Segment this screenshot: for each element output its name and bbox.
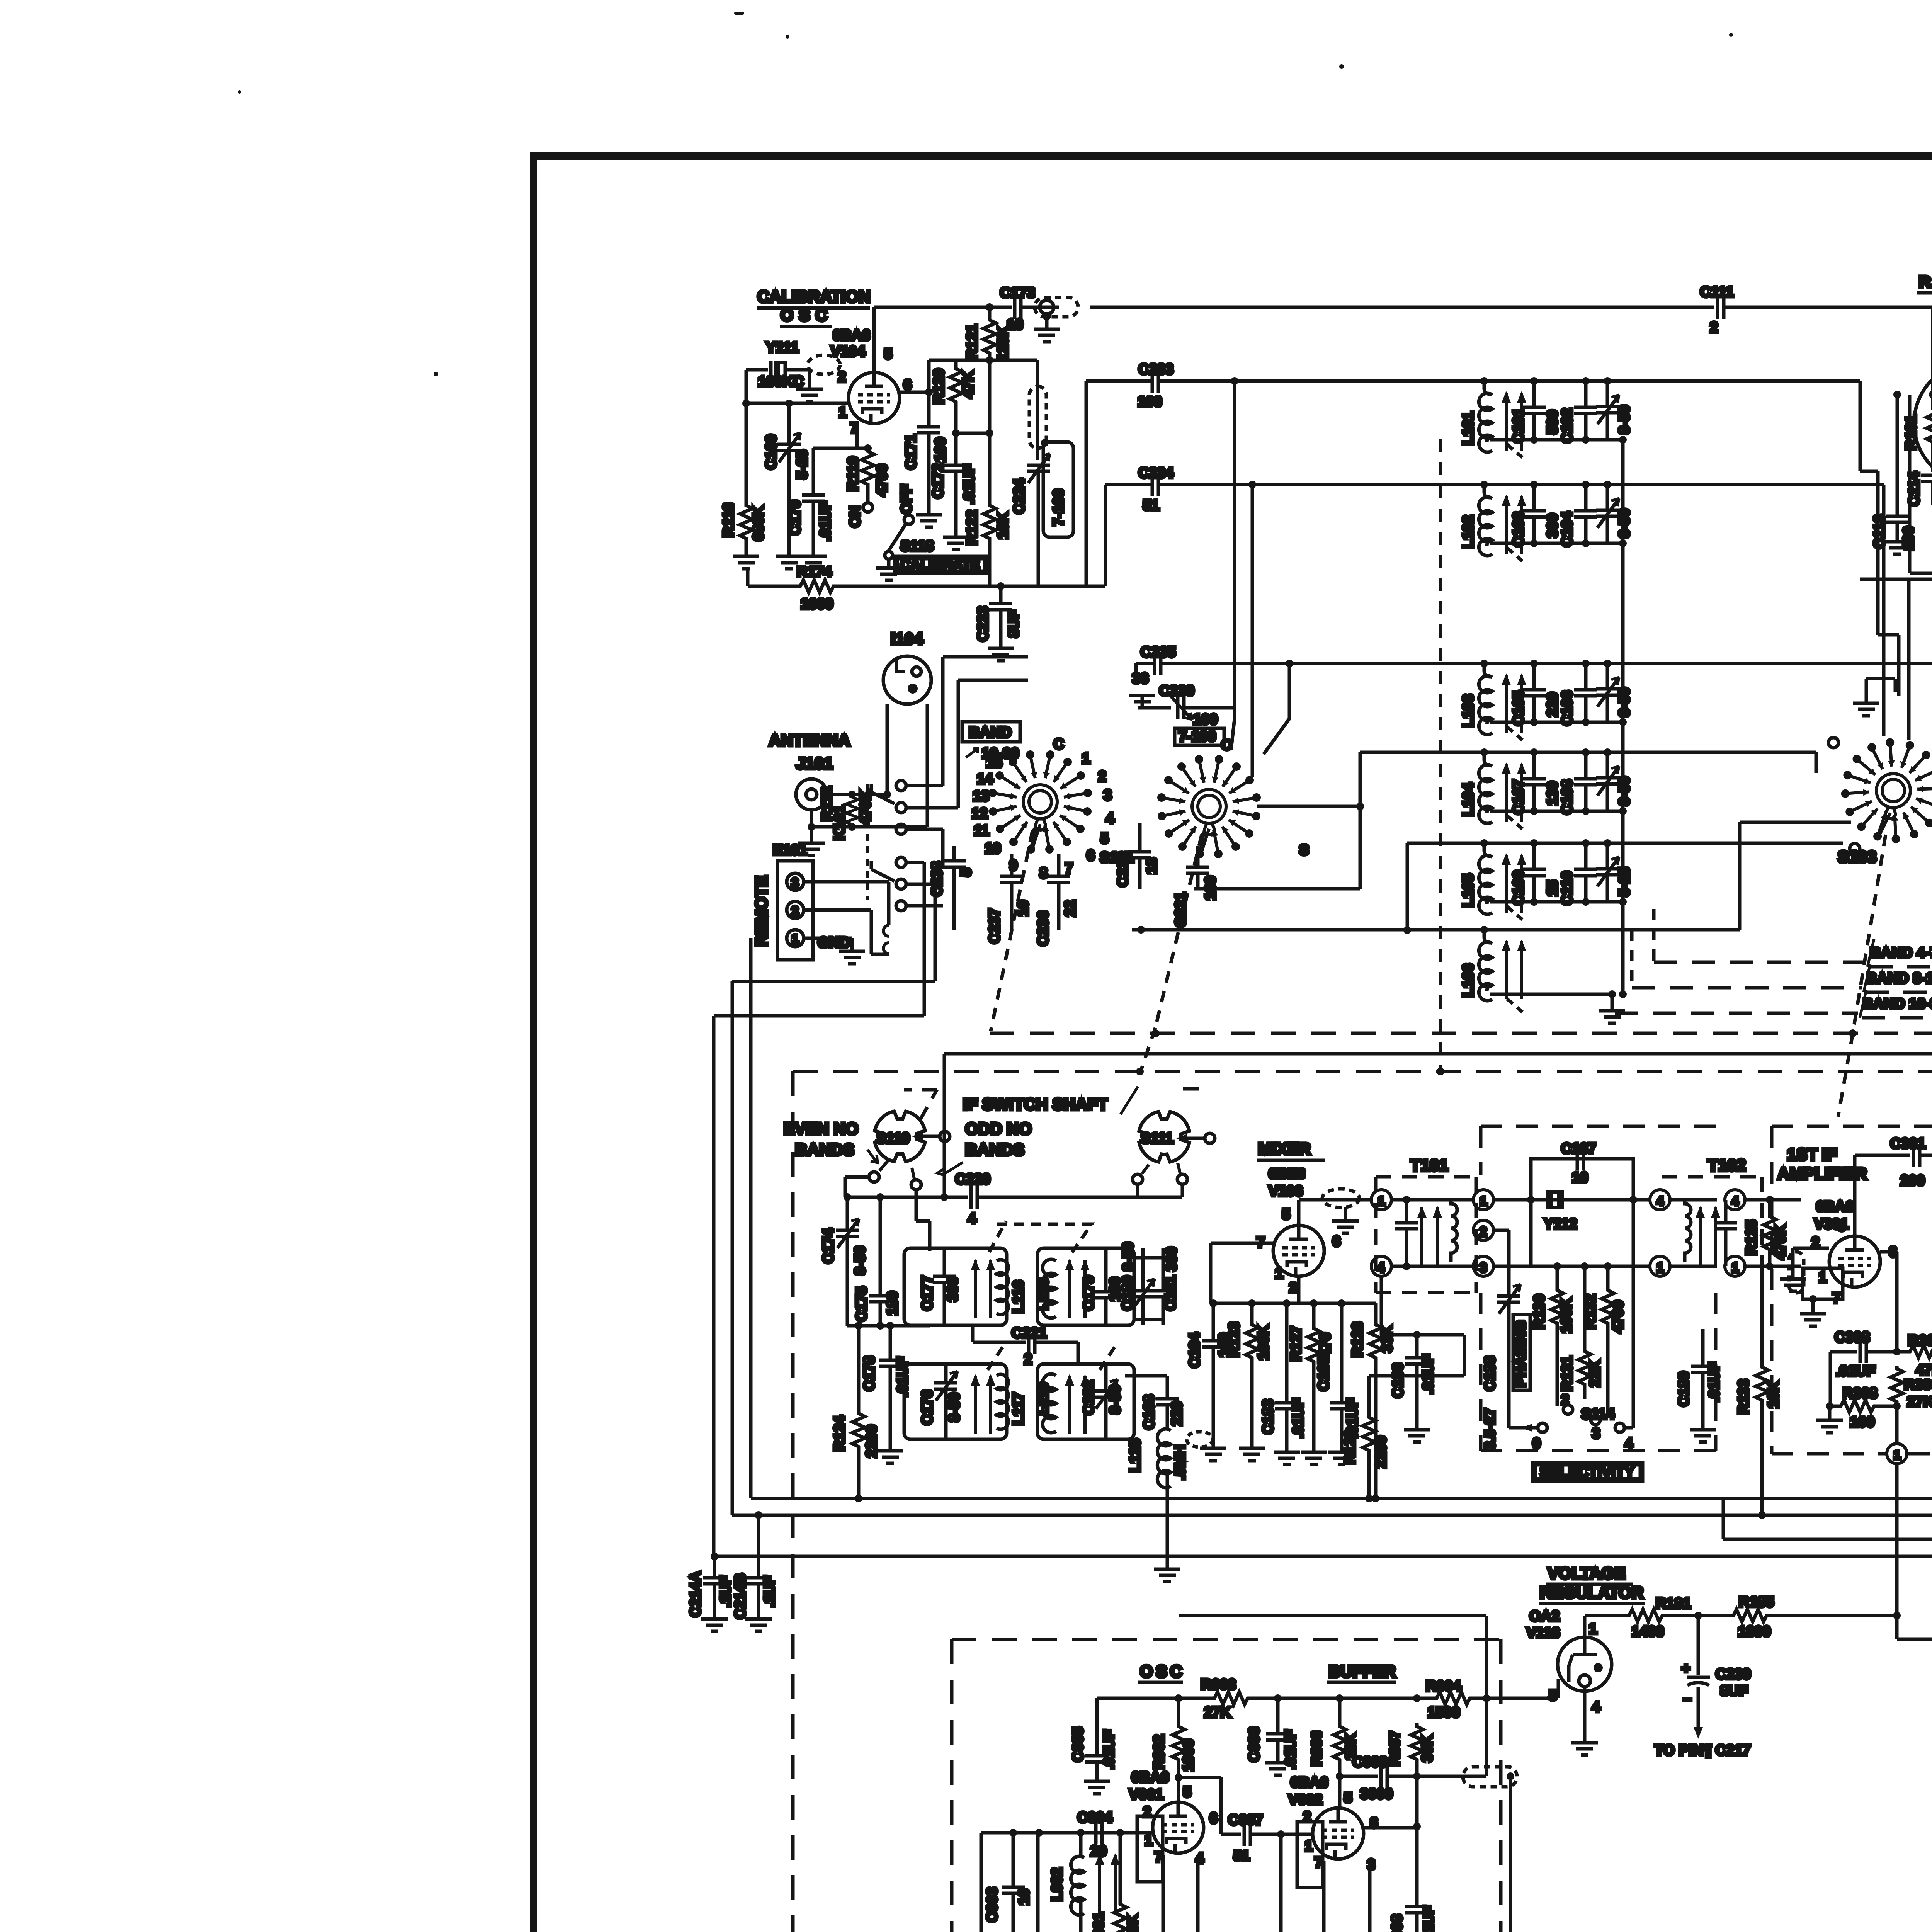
svg-text:1: 1 xyxy=(1818,1269,1827,1286)
svg-text:100: 100 xyxy=(1193,711,1218,728)
capacitor C214A .1UF xyxy=(687,1553,734,1631)
svg-text:200: 200 xyxy=(1900,1173,1925,1189)
resistor R129 2200 xyxy=(1342,1335,1464,1502)
svg-text:1: 1 xyxy=(1656,1260,1664,1275)
svg-text:100: 100 xyxy=(932,437,949,462)
shield terminal dashed xyxy=(796,355,840,401)
long return wires lower-left xyxy=(714,981,935,1556)
coil L002 xyxy=(1049,1833,1120,1932)
svg-text:51: 51 xyxy=(1143,497,1159,514)
variable capacitor C169 5-25 xyxy=(763,403,810,569)
svg-text:.01UF: .01UF xyxy=(1421,1906,1437,1932)
border frame xyxy=(534,156,1932,1932)
svg-text:100K: 100K xyxy=(1255,1325,1272,1360)
svg-text:2: 2 xyxy=(1098,769,1106,785)
section labels xyxy=(1138,1662,1396,1682)
svg-text:CALIBRATE: CALIBRATE xyxy=(900,557,980,573)
coil block L101 C101 500 C102 8-50 xyxy=(1460,377,1633,457)
svg-text:1: 1 xyxy=(1275,1265,1283,1282)
svg-text:1000: 1000 xyxy=(801,596,833,612)
svg-text:10: 10 xyxy=(1016,1889,1032,1905)
wire mid rung + C172 xyxy=(930,429,993,549)
switch S118 + OFF xyxy=(876,485,934,580)
svg-text:BAND 4-7 TA: BAND 4-7 TA xyxy=(1870,945,1932,961)
svg-text:C172: C172 xyxy=(930,463,946,498)
coil block L102 C103 300 C104 8-50 xyxy=(1460,481,1633,561)
svg-text:C308: C308 xyxy=(1835,1329,1870,1345)
svg-text:ON: ON xyxy=(847,505,863,527)
resistor R002 1000 xyxy=(1151,1698,1221,1834)
svg-text:L101: L101 xyxy=(1460,412,1476,445)
svg-text:7: 7 xyxy=(1065,861,1073,877)
resistor R123 100K xyxy=(1226,1303,1272,1461)
svg-text:C101: C101 xyxy=(1510,408,1527,443)
svg-text:C003: C003 xyxy=(984,1887,1000,1922)
svg-text:Y112: Y112 xyxy=(1544,1216,1577,1232)
svg-text:2200: 2200 xyxy=(1373,1435,1389,1468)
capacitor C173 10 xyxy=(1000,285,1059,333)
band switch S101 xyxy=(962,722,1134,881)
svg-text:C238: C238 xyxy=(929,861,945,896)
resistor R007 39K xyxy=(1387,1723,1435,1830)
capacitor C238 5 xyxy=(929,846,974,930)
svg-text:1: 1 xyxy=(791,932,799,947)
resistor R185 1800 xyxy=(1730,1594,1932,1640)
gang tuning dashed links xyxy=(988,1221,1117,1370)
svg-text:18: 18 xyxy=(1144,858,1160,874)
svg-text:C176: C176 xyxy=(919,1390,935,1425)
screen wire to R307 node xyxy=(1880,1252,1897,1352)
svg-text:4: 4 xyxy=(1592,1699,1600,1715)
tube V001 xyxy=(1129,1769,1218,1882)
capacitor C189 .01UF xyxy=(1676,1329,1722,1442)
capacitor C223 8UF xyxy=(975,582,1022,661)
staircase wires to S103 xyxy=(1533,381,1932,843)
svg-text:.01UF: .01UF xyxy=(1290,1398,1306,1438)
svg-text:1: 1 xyxy=(1378,1194,1385,1209)
svg-text:C183: C183 xyxy=(1260,1399,1276,1434)
svg-text:V001: V001 xyxy=(1129,1787,1163,1803)
resistor R119 4700 xyxy=(845,444,890,527)
svg-text:6: 6 xyxy=(1087,847,1095,864)
svg-text:BANDS: BANDS xyxy=(795,1141,854,1159)
even bands wire xyxy=(845,1177,869,1197)
svg-text:10: 10 xyxy=(985,840,1001,857)
svg-text:L104: L104 xyxy=(1460,783,1476,816)
svg-text:5: 5 xyxy=(1549,1687,1557,1704)
svg-text:V002: V002 xyxy=(1288,1792,1323,1808)
C233 bus wire xyxy=(1086,361,1860,410)
dashed bus line xyxy=(990,1029,1932,1037)
svg-text:R.F. AM: R.F. AM xyxy=(1919,273,1932,291)
relay K101 xyxy=(832,781,906,954)
svg-text:5: 5 xyxy=(1838,1218,1846,1234)
band switch S103 xyxy=(1828,733,1932,866)
svg-text:1: 1 xyxy=(1893,1448,1901,1463)
svg-text:C108: C108 xyxy=(1559,779,1575,815)
svg-text:8-50: 8-50 xyxy=(1120,1242,1136,1271)
svg-text:3: 3 xyxy=(1480,1260,1487,1275)
svg-text:.01UF: .01UF xyxy=(817,501,833,541)
svg-text:5-25: 5-25 xyxy=(794,450,810,479)
svg-text:R123: R123 xyxy=(1226,1322,1242,1357)
svg-text:R133: R133 xyxy=(1736,1379,1752,1414)
svg-text:V104: V104 xyxy=(831,344,865,360)
resistor R306 27K xyxy=(1891,1366,1932,1410)
svg-text:2: 2 xyxy=(1710,320,1718,336)
capacitor C308 .01UF xyxy=(1830,1329,1901,1379)
svg-text:300: 300 xyxy=(1544,514,1561,538)
svg-text:R119: R119 xyxy=(845,456,861,491)
capacitor C184 100 xyxy=(1187,1303,1232,1461)
svg-text:470K: 470K xyxy=(1772,1225,1789,1260)
capacitor C221 2 xyxy=(973,1325,1078,1367)
C234 bus wire xyxy=(1105,465,1884,514)
right bus of coil blocks xyxy=(1619,440,1627,998)
svg-text:1800: 1800 xyxy=(1738,1624,1771,1640)
svg-text:3.5-27: 3.5-27 xyxy=(1482,1408,1498,1450)
V301 grid side xyxy=(1780,1248,1843,1326)
svg-text:10: 10 xyxy=(1015,900,1031,917)
mid bus xyxy=(847,1322,930,1330)
capacitor C003 10 xyxy=(984,1833,1032,1932)
svg-text:4: 4 xyxy=(1106,810,1114,827)
S102 shaft dashed xyxy=(1155,835,1202,1028)
svg-text:C180: C180 xyxy=(1119,1276,1136,1311)
svg-text:3000: 3000 xyxy=(1360,1786,1393,1802)
svg-text:1: 1 xyxy=(1304,1838,1313,1854)
svg-text:R306: R306 xyxy=(1904,1377,1932,1393)
svg-text:I104: I104 xyxy=(891,630,923,648)
svg-text:C232: C232 xyxy=(1115,852,1131,887)
capacitor C214B .1UF xyxy=(732,1511,778,1631)
svg-text:100K: 100K xyxy=(1558,1298,1575,1333)
resistor R308 100 xyxy=(1816,1352,1901,1444)
svg-text:R124: R124 xyxy=(832,1416,848,1451)
grid return box wires xyxy=(1860,395,1932,579)
svg-text:L116: L116 xyxy=(1010,1280,1027,1313)
svg-text:4700: 4700 xyxy=(874,464,890,497)
svg-text:14: 14 xyxy=(977,771,993,787)
svg-text:S114: S114 xyxy=(1581,1406,1615,1422)
capacitor C239 8UF electrolytic xyxy=(1655,1616,1751,1759)
svg-text:C188: C188 xyxy=(1482,1356,1498,1391)
svg-text:10: 10 xyxy=(1572,1170,1588,1186)
svg-text:220: 220 xyxy=(1169,1401,1185,1426)
svg-text:1: 1 xyxy=(838,405,847,421)
capacitor C006 .01UF xyxy=(1246,1698,1299,1775)
svg-text:1ST IF: 1ST IF xyxy=(1787,1145,1837,1164)
svg-text:2: 2 xyxy=(1561,1392,1569,1408)
resistor R118 680K xyxy=(721,403,767,569)
svg-text:V106: V106 xyxy=(1269,1183,1303,1199)
capacitor C007 51 xyxy=(1221,1812,1312,1864)
capacitor C185 .01UF xyxy=(1316,1303,1361,1464)
svg-text:R181: R181 xyxy=(1656,1595,1691,1612)
svg-text:C239: C239 xyxy=(1716,1666,1751,1682)
svg-text:680K: 680K xyxy=(750,506,767,541)
svg-text:C237: C237 xyxy=(986,908,1003,944)
svg-text:.1UF: .1UF xyxy=(762,1576,778,1607)
wiper feed from bus xyxy=(940,1141,948,1201)
svg-text:L106: L106 xyxy=(1460,963,1476,997)
capacitor C220 4 xyxy=(845,1171,1182,1227)
svg-text:.01UF: .01UF xyxy=(1282,1730,1299,1770)
svg-text:BUFFER: BUFFER xyxy=(1328,1662,1396,1681)
mixer bottom bus xyxy=(1209,1243,1376,1307)
B+ bus with R003 R004 xyxy=(1097,1677,1558,1721)
svg-text:1: 1 xyxy=(1589,1621,1597,1637)
svg-text:CALIBRATION: CALIBRATION xyxy=(757,287,871,306)
svg-text:OA2: OA2 xyxy=(1529,1608,1560,1624)
svg-text:22: 22 xyxy=(1062,900,1078,917)
svg-text:S103: S103 xyxy=(1838,848,1876,866)
svg-text:39K: 39K xyxy=(1419,1735,1435,1762)
svg-text:C103: C103 xyxy=(1510,512,1527,547)
svg-text:TO PIN¶ C217: TO PIN¶ C217 xyxy=(1655,1742,1751,1759)
resistor R127 470 xyxy=(1288,1303,1333,1464)
resistor R172 470K xyxy=(808,704,927,831)
svg-text:BAND 16-30 TA: BAND 16-30 TA xyxy=(1862,996,1932,1012)
svg-text:BANDS: BANDS xyxy=(965,1141,1024,1159)
svg-text:C109: C109 xyxy=(1510,870,1527,905)
svg-text:EVEN NO: EVEN NO xyxy=(784,1120,859,1138)
dashed bus line 2 xyxy=(793,1068,1932,1932)
svg-text:R127: R127 xyxy=(1288,1326,1304,1361)
svg-text:C107: C107 xyxy=(1510,779,1527,815)
svg-text:R001: R001 xyxy=(1091,1912,1107,1932)
svg-text:C214B: C214B xyxy=(732,1573,748,1619)
svg-text:2: 2 xyxy=(1143,1804,1151,1820)
IF coil block L116 C177 xyxy=(904,1248,1027,1325)
svg-text:ANTENNA: ANTENNA xyxy=(769,731,850,750)
svg-text:2: 2 xyxy=(791,904,799,918)
capacitor C180 8-50 xyxy=(1119,1242,1155,1325)
svg-text:6BA6: 6BA6 xyxy=(833,327,870,344)
svg-text:BAND 8-15 TA: BAND 8-15 TA xyxy=(1866,970,1932,986)
svg-text:5: 5 xyxy=(1100,830,1109,847)
V001/V002 cathode columns xyxy=(1163,1855,1370,1932)
svg-text:C110: C110 xyxy=(1559,871,1575,905)
svg-text:L125: L125 xyxy=(1127,1439,1143,1472)
switch rotor S110 xyxy=(784,1111,1032,1175)
svg-text:2: 2 xyxy=(1480,1225,1487,1239)
capacitor C232 18 xyxy=(1115,823,1160,889)
svg-text:R118: R118 xyxy=(721,503,737,537)
svg-text:R128: R128 xyxy=(1350,1322,1366,1357)
svg-text:C106: C106 xyxy=(1559,690,1575,726)
svg-text:3: 3 xyxy=(1104,787,1112,803)
svg-text:1: 1 xyxy=(1145,1832,1153,1849)
svg-text:5: 5 xyxy=(1183,1784,1191,1800)
svg-text:2200: 2200 xyxy=(864,1425,880,1458)
resistor R307 47K xyxy=(1897,1333,1932,1378)
svg-text:C008: C008 xyxy=(1389,1914,1405,1932)
svg-text:C234: C234 xyxy=(1138,465,1173,481)
svg-text:300: 300 xyxy=(1163,1247,1180,1271)
svg-text:470K: 470K xyxy=(857,790,874,825)
svg-text:8UF: 8UF xyxy=(1006,610,1022,638)
resistor R125 470K xyxy=(1743,1196,1801,1270)
capacitor C170 .01UF xyxy=(787,423,868,569)
plate bus to C111 xyxy=(1090,284,1932,395)
svg-text:R307: R307 xyxy=(1908,1333,1932,1349)
switch rotor S111 xyxy=(1133,1112,1215,1197)
capacitor C001 540 xyxy=(1010,1833,1055,1932)
resistor R124 2200 xyxy=(832,1326,880,1502)
svg-text:J101: J101 xyxy=(796,754,833,773)
svg-text:2: 2 xyxy=(1289,1280,1297,1296)
svg-text:BAND: BAND xyxy=(969,724,1012,741)
svg-text:IF SWITCH SHAFT: IF SWITCH SHAFT xyxy=(963,1095,1108,1114)
T101 pin4 wire and C186 xyxy=(1381,1276,1464,1442)
svg-text:T101: T101 xyxy=(1410,1156,1448,1175)
capacitor C009 3000 xyxy=(1179,1616,1517,1932)
svg-text:C184: C184 xyxy=(1187,1333,1203,1368)
resistor R174 1000 xyxy=(748,564,1105,612)
svg-text:220: 220 xyxy=(1544,692,1561,717)
svg-text:300: 300 xyxy=(945,1277,961,1301)
wire pin6 upper rung xyxy=(927,360,931,392)
svg-text:330K: 330K xyxy=(1125,1914,1141,1932)
capacitor C005 .01UF xyxy=(1070,1698,1117,1794)
svg-text:5: 5 xyxy=(884,346,892,362)
resistor R121 120K chain xyxy=(964,303,1011,502)
tube V301 xyxy=(1811,1218,1897,1306)
svg-text:C236: C236 xyxy=(1035,911,1051,946)
svg-text:–: – xyxy=(1683,1690,1691,1707)
wire vertical to C233 bus xyxy=(1085,381,1088,586)
svg-text:REGULATOR: REGULATOR xyxy=(1540,1583,1643,1602)
svg-text:47K: 47K xyxy=(1916,1362,1932,1378)
svg-text:C177: C177 xyxy=(919,1276,935,1311)
svg-text:12: 12 xyxy=(971,806,988,822)
wire vertical to C234 bus xyxy=(1104,485,1107,586)
resistor R128 33K xyxy=(1350,1303,1395,1502)
svg-text:S111: S111 xyxy=(1141,1130,1173,1146)
svg-text:5: 5 xyxy=(958,868,974,876)
wire grid bus xyxy=(746,402,849,405)
solid bus line xyxy=(944,1054,1932,1185)
antenna jack J101 xyxy=(769,731,887,855)
SELECTIVITY label box xyxy=(1533,1463,1643,1481)
svg-text:R131: R131 xyxy=(1559,1356,1575,1391)
svg-text:1: 1 xyxy=(1731,1260,1739,1275)
capacitor C178 .01UF xyxy=(861,1326,911,1463)
svg-text:1400: 1400 xyxy=(1631,1624,1664,1640)
BAND 4-7 TAP xyxy=(1654,909,1932,967)
svg-text:6: 6 xyxy=(1209,1810,1218,1827)
transformer T102 xyxy=(1650,1156,1762,1293)
1ST IF AMPLIFIER dashed box xyxy=(1772,1126,1932,1454)
tube V116 OA2 xyxy=(1549,1621,1612,1755)
svg-text:C224: C224 xyxy=(1011,479,1027,514)
svg-text:L103: L103 xyxy=(1460,694,1476,728)
svg-text:C006: C006 xyxy=(1246,1727,1262,1762)
IF coil block L119 C182 xyxy=(1035,1364,1134,1439)
BAND 16-30 TAP xyxy=(1615,990,1932,1018)
svg-text:.01UF: .01UF xyxy=(961,464,977,504)
choke L125 C168 .5MH xyxy=(1125,1376,1213,1582)
svg-text:22K: 22K xyxy=(1587,1360,1603,1387)
svg-text:C174: C174 xyxy=(820,1228,837,1264)
svg-text:1: 1 xyxy=(1480,1194,1487,1209)
resistor R130 100K xyxy=(1531,1266,1575,1406)
svg-text:R002: R002 xyxy=(1151,1735,1167,1770)
capacitor C171 100 xyxy=(900,392,949,527)
svg-text:C233: C233 xyxy=(1138,361,1173,378)
svg-text:27K: 27K xyxy=(1907,1394,1932,1410)
capacitor C114 .01UF xyxy=(1906,463,1932,506)
svg-text:C178: C178 xyxy=(861,1356,878,1391)
svg-text:R006: R006 xyxy=(1309,1731,1325,1766)
coil block L103 C105 220 C106 8-50 xyxy=(1460,660,1633,740)
svg-text:R129: R129 xyxy=(1342,1429,1358,1464)
relay contact wires xyxy=(906,657,1028,1016)
svg-text:ODD NO: ODD NO xyxy=(965,1120,1032,1138)
svg-text:8UF: 8UF xyxy=(1720,1683,1748,1699)
IF coil block L117 C176 xyxy=(904,1364,1027,1439)
dashed enclosure crystal filter xyxy=(1481,1126,1716,1451)
CALIBRATE label box xyxy=(895,556,987,573)
resistor R120 47K xyxy=(931,360,976,433)
svg-text:OSC: OSC xyxy=(781,306,833,325)
lamp I104 xyxy=(883,630,931,798)
capacitor C113 100 xyxy=(1871,391,1917,554)
svg-text:3: 3 xyxy=(791,876,799,890)
solid line to S103 xyxy=(1132,822,1851,934)
svg-text:1500: 1500 xyxy=(1427,1704,1460,1721)
svg-text:.5MH: .5MH xyxy=(1172,1445,1188,1480)
svg-text:C220: C220 xyxy=(955,1171,990,1187)
svg-text:R121: R121 xyxy=(964,324,980,359)
S102 contact wires right xyxy=(1194,752,1533,934)
grid bus C004 xyxy=(981,1810,1153,1859)
svg-text:R308: R308 xyxy=(1842,1385,1878,1401)
svg-text:4: 4 xyxy=(1656,1194,1664,1209)
coil block L105 C109 15 C110 5-25 xyxy=(1460,839,1633,920)
V002 plate wire xyxy=(1364,1826,1417,1830)
tube V104 6BA6 xyxy=(831,327,912,436)
S103 shaft dashed xyxy=(1838,835,1886,1117)
crystal filter box xyxy=(1473,1141,1650,1276)
svg-text:4: 4 xyxy=(968,1211,976,1227)
IF coil block L118 C179 xyxy=(1035,1248,1134,1325)
svg-text:10: 10 xyxy=(1007,316,1023,333)
section label CALIBRATION OSC xyxy=(757,287,871,327)
svg-text:L002: L002 xyxy=(1049,1867,1065,1901)
svg-text:L117: L117 xyxy=(1010,1392,1027,1425)
svg-text:C181: C181 xyxy=(1163,1276,1179,1311)
crystal Y111 xyxy=(746,340,808,403)
svg-text:L102: L102 xyxy=(1460,515,1476,549)
svg-text:8-50: 8-50 xyxy=(1107,1385,1123,1414)
svg-text:C173: C173 xyxy=(1000,285,1035,301)
svg-text:5: 5 xyxy=(1344,1790,1352,1806)
svg-text:C168: C168 xyxy=(1141,1395,1157,1430)
svg-text:6BA6: 6BA6 xyxy=(1131,1769,1169,1786)
variable capacitor C230 7-100 xyxy=(1129,683,1235,745)
resistor R122 10K xyxy=(964,502,1011,586)
capacitor C231 100 xyxy=(1173,846,1219,927)
svg-text:500: 500 xyxy=(1544,410,1561,434)
svg-text:C171: C171 xyxy=(903,434,919,469)
svg-text:.01UF: .01UF xyxy=(1835,1363,1875,1379)
section label xyxy=(1526,1564,1645,1641)
svg-text:1000: 1000 xyxy=(1180,1739,1197,1772)
svg-text:C235: C235 xyxy=(1141,644,1176,660)
scan specks xyxy=(238,12,1733,376)
